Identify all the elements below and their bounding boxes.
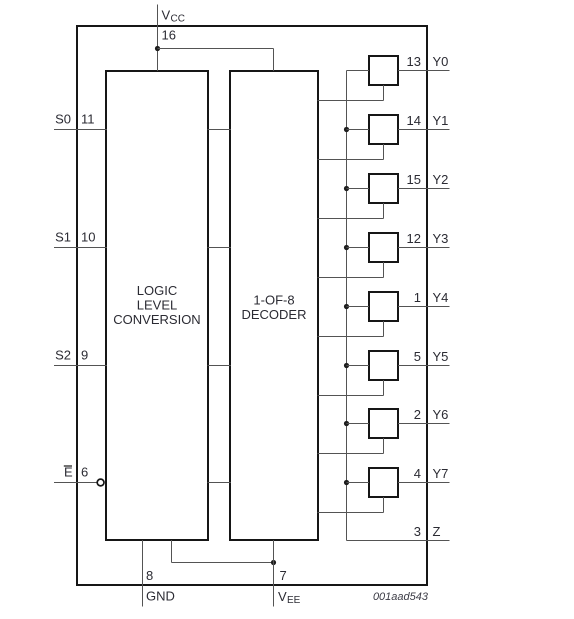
- wire SW4 output Y4: [398, 306, 450, 308]
- wire input S1: [54, 247, 107, 249]
- node Z bus junction Y6: [344, 421, 349, 426]
- svg-text:Y1: Y1: [433, 113, 449, 128]
- wire input S2: [54, 365, 107, 367]
- label VCC: [162, 8, 185, 25]
- svg-text:Y7: Y7: [433, 466, 449, 481]
- wire SW3 output Y3: [398, 247, 450, 249]
- svg-text:6: 6: [81, 465, 88, 480]
- svg-text:E: E: [64, 465, 73, 480]
- node Z bus junction Y2: [344, 186, 349, 191]
- IC boundary box: [77, 26, 427, 585]
- wire bus to SW7 input: [347, 482, 370, 484]
- svg-text:LEVEL: LEVEL: [137, 298, 177, 313]
- wire S0 level conversion to decoder: [208, 129, 232, 131]
- svg-text:001aad543: 001aad543: [373, 591, 429, 603]
- analog switch SW6: [369, 409, 398, 438]
- wire decoder select 3 to SW3 control: [318, 262, 384, 278]
- svg-text:1: 1: [414, 290, 421, 305]
- block U2 1-OF-8 DECODER: [230, 71, 318, 540]
- wire SW5 output Y5: [398, 365, 450, 367]
- wire GND pin: [142, 540, 144, 607]
- analog switch SW1: [369, 115, 398, 144]
- wire VEE pin: [273, 540, 275, 607]
- wire bus to SW3 input: [347, 247, 370, 249]
- svg-text:EE: EE: [287, 595, 301, 606]
- wire SW1 output Y1: [398, 129, 450, 131]
- analog switch SW3: [369, 233, 398, 262]
- wire bus to SW1 input: [347, 129, 370, 131]
- svg-text:2: 2: [414, 407, 421, 422]
- svg-text:7: 7: [280, 568, 287, 583]
- node VEE junction: [271, 560, 276, 565]
- wire SW2 output Y2: [398, 188, 450, 190]
- wire VCC supply: [157, 5, 159, 72]
- wire SW7 output Y7: [398, 482, 450, 484]
- wire decoder select 1 to SW1 control: [318, 144, 384, 160]
- svg-text:15: 15: [407, 172, 421, 187]
- wire S1 level conversion to decoder: [208, 247, 232, 249]
- wire decoder select 6 to SW6 control: [318, 438, 384, 454]
- wire input S0: [54, 129, 107, 131]
- node Z bus junction Y3: [344, 245, 349, 250]
- analog switch SW7: [369, 468, 398, 497]
- wire output Z: [347, 540, 450, 542]
- svg-text:16: 16: [162, 28, 176, 43]
- svg-text:12: 12: [407, 231, 421, 246]
- wire bus to SW0 input: [347, 70, 370, 72]
- svg-text:8: 8: [146, 568, 153, 583]
- wire decoder select 4 to SW4 control: [318, 321, 384, 337]
- label U2: [241, 293, 306, 323]
- label VEE: [278, 589, 301, 606]
- svg-text:S0: S0: [55, 112, 71, 127]
- wire Z common bus: [346, 71, 348, 541]
- svg-text:4: 4: [414, 466, 421, 481]
- wire bus to SW5 input: [347, 365, 370, 367]
- wire bus to SW6 input: [347, 423, 370, 425]
- svg-text:Y0: Y0: [433, 54, 449, 69]
- node VCC junction: [155, 46, 160, 51]
- svg-text:Y6: Y6: [433, 407, 449, 422]
- svg-text:Z: Z: [433, 524, 441, 539]
- svg-text:CC: CC: [171, 14, 185, 25]
- node Z bus junction Y1: [344, 127, 349, 132]
- svg-text:DECODER: DECODER: [241, 307, 306, 322]
- svg-text:9: 9: [81, 348, 88, 363]
- wire U1 to VEE: [172, 540, 274, 563]
- wire VCC branch to decoder: [158, 49, 274, 72]
- svg-text:11: 11: [81, 112, 95, 127]
- node Z bus junction Y7: [344, 480, 349, 485]
- svg-text:Y3: Y3: [433, 231, 449, 246]
- wire SW6 output Y6: [398, 423, 450, 425]
- analog switch SW0: [369, 56, 398, 85]
- label E (active low): [64, 465, 73, 480]
- svg-text:10: 10: [81, 230, 95, 245]
- wire bus to SW4 input: [347, 306, 370, 308]
- wire decoder select 7 to SW7 control: [318, 497, 384, 513]
- svg-text:V: V: [278, 589, 287, 604]
- svg-text:14: 14: [407, 113, 421, 128]
- node Z bus junction Y5: [344, 363, 349, 368]
- wire bus to SW2 input: [347, 188, 370, 190]
- svg-text:GND: GND: [146, 589, 175, 604]
- svg-text:CONVERSION: CONVERSION: [113, 312, 200, 327]
- svg-text:5: 5: [414, 349, 421, 364]
- wire input E: [54, 482, 97, 484]
- analog switch SW2: [369, 174, 398, 203]
- svg-text:V: V: [162, 8, 171, 23]
- svg-text:13: 13: [407, 54, 421, 69]
- svg-text:S2: S2: [55, 348, 71, 363]
- svg-text:S1: S1: [55, 230, 71, 245]
- wire decoder select 0 to SW0 control: [318, 85, 384, 101]
- wire S2 level conversion to decoder: [208, 365, 232, 367]
- svg-text:3: 3: [414, 524, 421, 539]
- svg-text:LOGIC: LOGIC: [137, 283, 177, 298]
- svg-text:Y2: Y2: [433, 172, 449, 187]
- svg-text:1-OF-8: 1-OF-8: [253, 293, 294, 308]
- svg-text:Y4: Y4: [433, 290, 449, 305]
- label U1: [113, 283, 200, 327]
- node Z bus junction Y4: [344, 304, 349, 309]
- wire decoder select 2 to SW2 control: [318, 203, 384, 219]
- svg-text:Y5: Y5: [433, 349, 449, 364]
- analog switch SW5: [369, 351, 398, 380]
- inverter bubble on E input: [97, 479, 104, 486]
- analog switch SW4: [369, 292, 398, 321]
- wire SW0 output Y0: [398, 70, 450, 72]
- block U1 LOGIC LEVEL CONVERSION: [106, 71, 208, 540]
- wire decoder select 5 to SW5 control: [318, 380, 384, 396]
- wire E level conversion to decoder: [208, 482, 232, 484]
